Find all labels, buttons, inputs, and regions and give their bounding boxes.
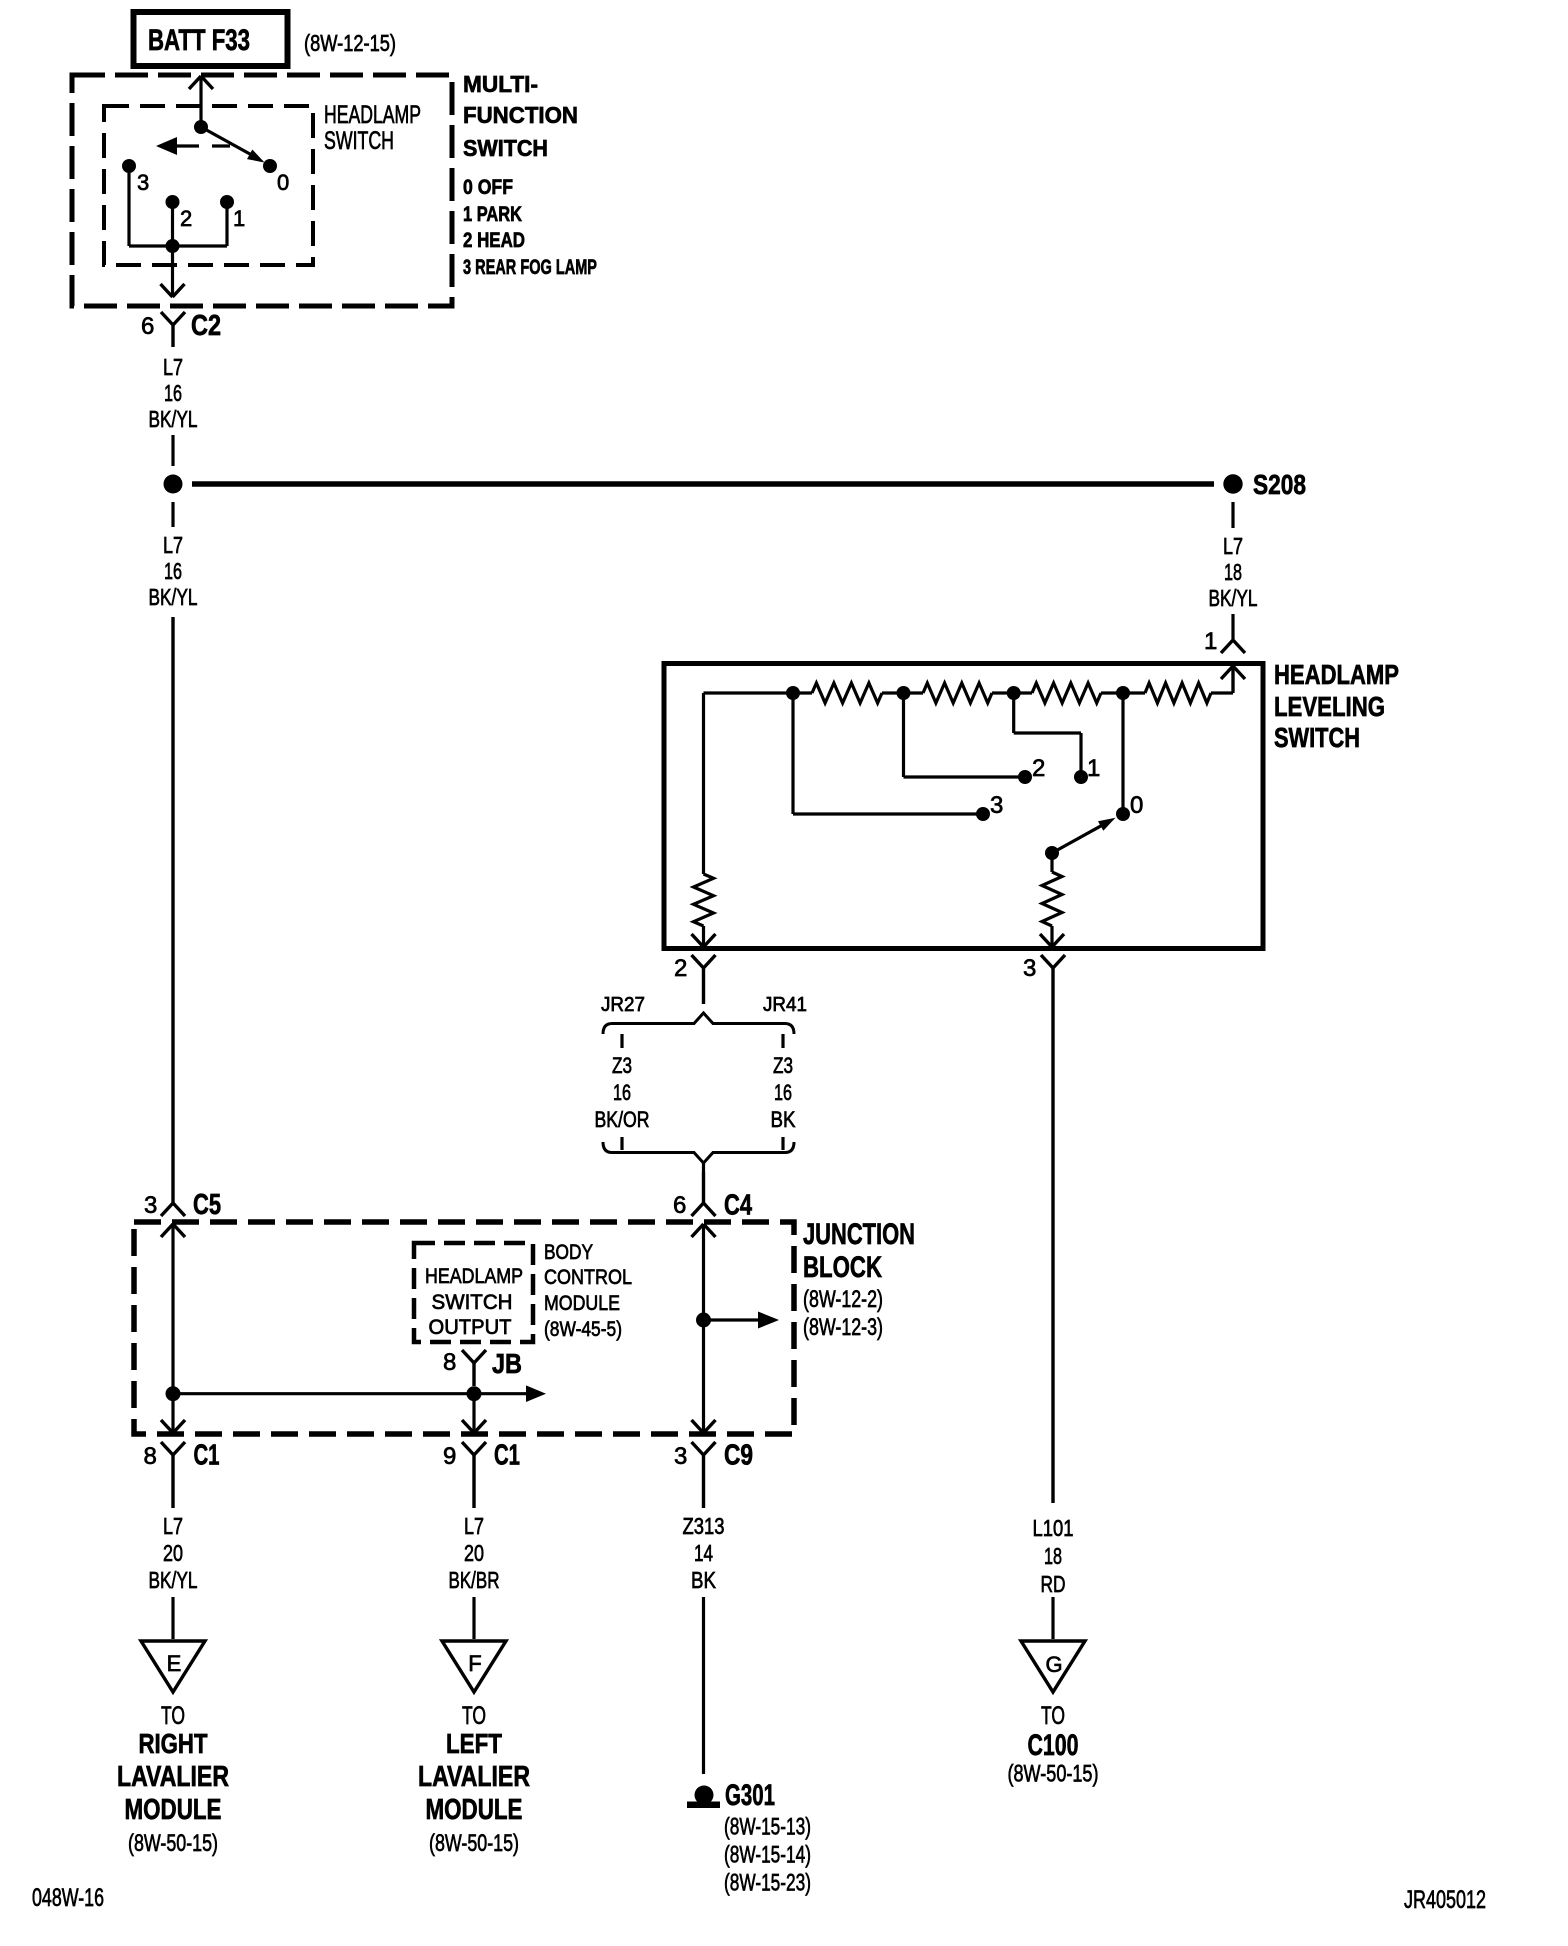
svg-text:L7: L7 [163, 1513, 183, 1539]
wire label Z313 14 BK [683, 1513, 725, 1593]
svg-text:BK/OR: BK/OR [595, 1107, 650, 1132]
svg-text:1 PARK: 1 PARK [463, 203, 522, 226]
svg-text:6: 6 [673, 1192, 686, 1219]
wire label L7 18 BK/YL [1209, 533, 1258, 611]
svg-text:3: 3 [1023, 955, 1036, 982]
svg-text:HEADLAMP: HEADLAMP [1274, 659, 1399, 690]
svg-text:SWITCH: SWITCH [463, 135, 548, 161]
wire segment to leveling switch [1231, 614, 1234, 640]
svg-text:C2: C2 [191, 310, 221, 342]
headlamp leveling switch box [664, 664, 1263, 949]
svg-text:8: 8 [144, 1443, 157, 1470]
stub wire JR41 lower [781, 1137, 784, 1150]
svg-text:L7: L7 [1223, 533, 1243, 559]
svg-text:1: 1 [233, 206, 245, 231]
label JR27 [601, 994, 645, 1016]
entry arrow at pin 1 [1221, 666, 1245, 692]
wire segment below left splice [171, 502, 174, 527]
contact 1 [220, 195, 245, 231]
svg-text:JR405012: JR405012 [1404, 1886, 1486, 1914]
svg-text:2: 2 [1032, 755, 1045, 782]
wire segment below S208 [1231, 502, 1234, 528]
svg-text:Z3: Z3 [612, 1053, 632, 1078]
svg-text:BK: BK [771, 1107, 796, 1132]
svg-text:TO: TO [1041, 1702, 1065, 1730]
svg-text:MULTI-: MULTI- [463, 71, 538, 97]
svg-text:G: G [1045, 1652, 1062, 1677]
svg-text:JR41: JR41 [763, 994, 807, 1016]
junction node in switch [166, 239, 180, 253]
svg-text:(8W-12-15): (8W-12-15) [304, 30, 396, 56]
wire label Z3 16 BK [771, 1053, 796, 1132]
wiper node [1045, 846, 1059, 860]
resistor R b-c [904, 683, 1014, 703]
svg-text:SWITCH: SWITCH [324, 127, 394, 155]
wire label Z3 16 BK/OR [595, 1053, 650, 1132]
svg-text:BK/YL: BK/YL [149, 406, 198, 432]
reference (8W-45-5) [544, 1318, 622, 1341]
svg-text:L7: L7 [163, 354, 183, 380]
svg-text:Z3: Z3 [773, 1053, 793, 1078]
multi-function switch dashed box [72, 75, 452, 306]
svg-text:16: 16 [613, 1080, 631, 1105]
connector C5 pin 3 [144, 617, 221, 1221]
headlamp switch inner dashed box [104, 106, 313, 265]
svg-text:JR27: JR27 [601, 994, 645, 1016]
svg-text:BLOCK: BLOCK [803, 1251, 882, 1284]
label HEADLAMP SWITCH OUTPUT [425, 1265, 523, 1339]
svg-text:3: 3 [674, 1443, 687, 1470]
svg-text:TO: TO [161, 1702, 185, 1730]
svg-text:16: 16 [164, 558, 182, 584]
output arrow right [704, 1312, 780, 1329]
title MULTI-FUNCTION SWITCH [463, 71, 578, 161]
label JR41 [763, 994, 807, 1016]
svg-text:FUNCTION: FUNCTION [463, 102, 578, 128]
trunk wire to S208 [192, 481, 1214, 487]
reference (8W-12-15) [304, 30, 396, 56]
title JUNCTION BLOCK [803, 1218, 915, 1284]
wire label L7 20 BK/BR [449, 1513, 500, 1593]
svg-text:C1: C1 [494, 1440, 520, 1472]
svg-text:14: 14 [694, 1540, 713, 1566]
sheet id JR405012 [1404, 1886, 1486, 1914]
wire C5 path through junction block [161, 1224, 185, 1434]
connector JB pin 8 [443, 1348, 522, 1386]
wire contact 3 to bus [129, 166, 227, 246]
svg-text:JUNCTION: JUNCTION [803, 1218, 915, 1251]
tap B to contact 2 [904, 693, 1026, 777]
resistor chain node D [1116, 686, 1130, 700]
svg-text:20: 20 [163, 1540, 183, 1566]
wiper resistor to pin 3 [1040, 853, 1064, 947]
svg-text:BK/YL: BK/YL [149, 1567, 198, 1593]
resistor chain node C [1007, 686, 1021, 700]
svg-text:G301: G301 [725, 1779, 775, 1812]
svg-text:C9: C9 [724, 1440, 753, 1472]
svg-text:3 REAR FOG LAMP: 3 REAR FOG LAMP [463, 256, 597, 279]
wiper arrow to contact 0 [1052, 818, 1116, 853]
svg-text:16: 16 [164, 380, 182, 406]
fuse BATT F33 [134, 12, 288, 66]
svg-text:HEADLAMP: HEADLAMP [425, 1265, 523, 1288]
svg-text:(8W-50-15): (8W-50-15) [429, 1830, 519, 1857]
wire contact 2 to junction [171, 202, 174, 246]
label BODY CONTROL MODULE [544, 1241, 632, 1315]
connector C9 pin 3 [674, 1440, 753, 1509]
svg-text:E: E [167, 1651, 182, 1676]
svg-text:MODULE: MODULE [125, 1794, 222, 1826]
svg-text:1: 1 [1087, 755, 1100, 782]
svg-text:2: 2 [180, 206, 192, 231]
svg-text:C1: C1 [194, 1440, 220, 1472]
wire label L7 20 BK/YL [149, 1513, 198, 1593]
connector C1 pin 9 [443, 1440, 520, 1509]
svg-text:LAVALIER: LAVALIER [117, 1761, 229, 1793]
svg-text:Z313: Z313 [683, 1513, 725, 1539]
svg-text:(8W-50-15): (8W-50-15) [1008, 1761, 1099, 1788]
svg-text:(8W-12-3): (8W-12-3) [803, 1314, 883, 1341]
wire C4 path through junction block [692, 1224, 716, 1434]
svg-text:18: 18 [1044, 1543, 1062, 1569]
svg-text:0 OFF: 0 OFF [463, 176, 513, 199]
wire to off-page E [171, 1597, 174, 1639]
connector pin 3 of leveling switch [1023, 955, 1065, 1503]
svg-text:C100: C100 [1028, 1729, 1079, 1762]
svg-text:0: 0 [277, 170, 289, 195]
svg-text:L101: L101 [1033, 1515, 1074, 1541]
headlamp switch output dashed box [414, 1243, 533, 1342]
svg-text:8: 8 [443, 1349, 456, 1376]
label HEADLAMP SWITCH [324, 101, 421, 155]
svg-text:9: 9 [443, 1443, 456, 1470]
svg-text:2 HEAD: 2 HEAD [463, 229, 525, 252]
connector C4 pin 6 [673, 1172, 752, 1222]
svg-text:(8W-50-15): (8W-50-15) [128, 1830, 218, 1857]
svg-text:F: F [468, 1651, 481, 1676]
svg-text:(8W-15-13): (8W-15-13) [724, 1814, 811, 1841]
bus wire with arrow [173, 1385, 546, 1402]
title HEADLAMP LEVELING SWITCH [1274, 659, 1399, 753]
svg-text:MODULE: MODULE [426, 1794, 523, 1826]
svg-text:BK/BR: BK/BR [449, 1567, 500, 1593]
stub wire JR41 [781, 1034, 784, 1048]
svg-text:BODY: BODY [544, 1241, 593, 1264]
left fixed resistor to pin 2 [692, 693, 716, 947]
ground G301 [687, 1779, 775, 1812]
reference (8W-12-2) [803, 1286, 883, 1313]
leveling contact 3 [976, 792, 1003, 821]
tap A to contact 3 [793, 693, 983, 814]
svg-text:L7: L7 [163, 532, 183, 558]
resistor R c-d [1014, 683, 1123, 703]
junction node JB [467, 1386, 482, 1401]
label TO RIGHT LAVALIER MODULE [117, 1702, 229, 1857]
resistor chain node B [897, 686, 911, 700]
stub wire JR27 [620, 1034, 623, 1048]
reference (8W-12-3) [803, 1314, 883, 1341]
svg-text:RD: RD [1041, 1571, 1066, 1597]
switch pivot node [194, 120, 208, 134]
connector C1 pin 8 [144, 1440, 220, 1509]
svg-text:RIGHT: RIGHT [139, 1728, 208, 1759]
wire splice to C4 [702, 1163, 705, 1172]
label TO LEFT LAVALIER MODULE [418, 1702, 530, 1857]
svg-text:2: 2 [674, 955, 687, 982]
sheet id 048W-16 [32, 1884, 104, 1912]
junction node left [166, 1386, 181, 1401]
svg-text:(8W-15-14): (8W-15-14) [724, 1842, 811, 1869]
splice brace upper [603, 1013, 794, 1034]
wire junction to C2 with down arrow [161, 246, 185, 297]
svg-text:CONTROL: CONTROL [544, 1266, 632, 1289]
resistor chain node A [786, 686, 800, 700]
switch wiper arm to contact 0 [201, 127, 265, 163]
wire label L7 16 BK/YL [149, 354, 198, 432]
svg-text:BK/YL: BK/YL [1209, 585, 1258, 611]
stub wire JR27 lower [620, 1137, 623, 1150]
svg-text:C5: C5 [193, 1189, 221, 1221]
off-page connector G [1021, 1641, 1085, 1692]
legend switch positions [463, 176, 597, 279]
svg-text:BK/YL: BK/YL [149, 584, 198, 610]
resistor R a-b [793, 683, 904, 703]
wire to off-page G [1051, 1597, 1054, 1639]
svg-text:L7: L7 [464, 1513, 484, 1539]
wire label L7 16 BK/YL lower [149, 532, 198, 610]
leveling contact 2 [1018, 755, 1045, 784]
svg-text:SWITCH: SWITCH [1274, 722, 1360, 753]
svg-text:3: 3 [144, 1192, 157, 1219]
splice S208 [1223, 469, 1306, 500]
junction block dashed box [134, 1222, 794, 1434]
svg-text:C4: C4 [724, 1190, 752, 1222]
off-page connector F [442, 1641, 506, 1692]
svg-text:3: 3 [990, 792, 1003, 819]
svg-text:LEVELING: LEVELING [1274, 691, 1385, 722]
wire switch common to BATT with up arrow [189, 76, 213, 127]
svg-text:048W-16: 048W-16 [32, 1884, 104, 1912]
wire label L101 18 RD [1033, 1515, 1074, 1597]
svg-text:(8W-12-2): (8W-12-2) [803, 1286, 883, 1313]
svg-text:MODULE: MODULE [544, 1292, 620, 1315]
tap D to contact 0 [1121, 693, 1124, 814]
wire to ground G301 [702, 1597, 705, 1774]
wire chain left lead [704, 691, 794, 694]
svg-text:16: 16 [774, 1080, 792, 1105]
leveling contact 0 [1116, 792, 1143, 821]
junction node on C4 path [696, 1313, 711, 1328]
resistor R d-end [1123, 666, 1233, 703]
svg-text:SWITCH: SWITCH [432, 1291, 513, 1314]
svg-text:BATT F33: BATT F33 [148, 24, 250, 57]
wire JB to C1 down [462, 1394, 486, 1434]
wire contact 1 to bus [225, 202, 228, 246]
connector pin 1 of leveling switch [1204, 628, 1245, 655]
svg-text:3: 3 [137, 170, 149, 195]
wire to off-page F [472, 1597, 475, 1639]
svg-text:6: 6 [141, 313, 154, 340]
connector C2 pin 6 [141, 310, 221, 347]
svg-text:(8W-15-23): (8W-15-23) [724, 1870, 811, 1897]
leveling contact 1 [1074, 755, 1100, 784]
svg-text:18: 18 [1224, 559, 1242, 585]
svg-text:LEFT: LEFT [446, 1728, 502, 1759]
ground references [724, 1814, 811, 1897]
svg-text:BK: BK [691, 1567, 717, 1593]
svg-text:TO: TO [462, 1702, 486, 1730]
wire segment to splice [171, 435, 174, 466]
label TO C100 [1008, 1702, 1099, 1788]
connector pin 2 of leveling switch [674, 955, 716, 1004]
contact 3 [122, 159, 149, 195]
svg-text:OUTPUT: OUTPUT [429, 1316, 512, 1339]
svg-text:S208: S208 [1253, 469, 1306, 500]
splice brace lower [603, 1142, 794, 1163]
svg-text:0: 0 [1130, 792, 1143, 819]
tap C to contact 1 [1014, 693, 1081, 777]
svg-text:1: 1 [1204, 628, 1217, 655]
contact 2 [166, 195, 193, 231]
svg-text:JB: JB [492, 1348, 522, 1379]
svg-text:(8W-45-5): (8W-45-5) [544, 1318, 622, 1341]
svg-text:HEADLAMP: HEADLAMP [324, 101, 421, 129]
splice node on left branch [164, 475, 183, 494]
svg-text:LAVALIER: LAVALIER [418, 1761, 530, 1793]
svg-text:20: 20 [464, 1540, 484, 1566]
off-page connector E [141, 1641, 205, 1692]
rotation arrow (points left) [156, 137, 230, 155]
contact 0 [263, 159, 289, 195]
